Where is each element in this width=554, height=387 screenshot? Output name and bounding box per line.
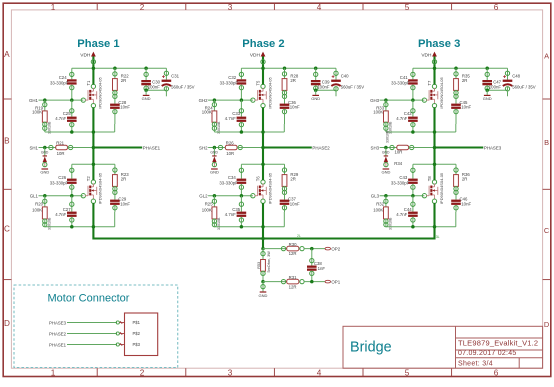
resistor R20 100K (32, 196, 51, 230)
svg-text:GND: GND (382, 150, 390, 154)
svg-text:T2: T2 (86, 176, 91, 182)
diode ESD protection Phase 2 (210, 148, 218, 167)
resistor R23 2R (113, 164, 130, 199)
svg-text:GND: GND (210, 150, 218, 154)
wire net GL3 (371, 194, 427, 199)
transistor T1 IPD90N04S04-05 (85, 76, 103, 108)
svg-text:PHASE1: PHASE1 (143, 145, 161, 150)
wire VDH rail Phase 1 (72, 66, 167, 70)
capacitor C31 560uF/35V electrolytic (162, 68, 195, 96)
wire net PHASE1 to connector (49, 342, 117, 347)
capacitor C44 4.7nF (396, 196, 417, 227)
svg-text:IPD90N04S04-05: IPD90N04S04-05 (439, 76, 444, 108)
wire low node line (386, 212, 456, 229)
resistor R19 100K (32, 100, 51, 134)
svg-text:33-330pF: 33-330pF (391, 81, 410, 86)
svg-text:GL3: GL3 (371, 194, 380, 199)
svg-text:560uF / 35V: 560uF / 35V (512, 84, 536, 89)
resistor R33 100K (373, 100, 392, 134)
svg-text:IPD90N04S04-05: IPD90N04S04-05 (267, 76, 272, 108)
svg-text:Motor Connector: Motor Connector (48, 293, 130, 305)
svg-text:33010B: 33010B (48, 217, 52, 230)
svg-text:PHASE3: PHASE3 (484, 145, 502, 150)
svg-text:C26: C26 (58, 175, 66, 180)
svg-text:560uF / 35V: 560uF / 35V (171, 84, 195, 89)
svg-text:B: B (4, 137, 10, 146)
wire VDH stub (91, 56, 95, 68)
svg-text:2R: 2R (290, 177, 296, 182)
svg-text:2R: 2R (462, 78, 468, 83)
wire net GL1 (30, 194, 86, 199)
wire VDH rail Phase 2 (241, 66, 336, 70)
ground symbol at SH1 diode (40, 168, 49, 174)
svg-text:R30: R30 (289, 242, 297, 247)
svg-text:12R: 12R (289, 284, 297, 289)
svg-text:SH3: SH3 (371, 145, 380, 150)
capacitor C25 4.7nF (55, 100, 76, 132)
svg-text:TLE9879_Evalkit_V1.2: TLE9879_Evalkit_V1.2 (458, 338, 538, 347)
wire cap ground link (485, 89, 507, 95)
svg-text:GND: GND (41, 150, 49, 154)
capacitor C27 4.7nF (55, 196, 76, 227)
connector X1 body (125, 313, 158, 356)
svg-text:T6: T6 (255, 176, 260, 182)
svg-text:10nF: 10nF (120, 202, 130, 207)
svg-text:4: 4 (317, 369, 322, 378)
wire shunt bottom branch (261, 279, 287, 291)
wire drain low side (92, 148, 94, 181)
svg-text:VDH: VDH (80, 52, 91, 58)
svg-text:3: 3 (228, 3, 233, 12)
svg-text:R34: R34 (394, 161, 402, 166)
svg-text:6: 6 (494, 3, 499, 12)
wire net GH1 (29, 98, 85, 103)
svg-text:4.7nF: 4.7nF (55, 116, 66, 121)
svg-text:33-330pF: 33-330pF (50, 181, 69, 186)
connector pin P$3 (116, 342, 140, 347)
svg-text:A: A (4, 50, 10, 59)
wire VDH stub (261, 56, 265, 68)
svg-text:VDH: VDH (421, 52, 432, 58)
svg-text:07.09.2017 02:45: 07.09.2017 02:45 (458, 350, 517, 357)
frame column ticks bottom (96, 368, 98, 376)
wire cap ground link (144, 89, 166, 95)
svg-text:5mOhm, 3W: 5mOhm, 3W (267, 251, 271, 273)
wire VDH stub (432, 56, 436, 68)
ground symbol at SH3 diode (381, 168, 390, 174)
svg-text:2: 2 (140, 3, 145, 12)
svg-text:100K: 100K (32, 207, 42, 212)
wire mid node high cell (45, 124, 115, 134)
resistor R34 10R (386, 130, 435, 166)
svg-text:C: C (4, 225, 10, 234)
capacitor C35 4.7nF (225, 196, 246, 227)
svg-text:GND: GND (40, 169, 49, 174)
svg-text:10nF: 10nF (120, 104, 130, 109)
svg-text:GL1: GL1 (30, 194, 39, 199)
wire low node line (45, 212, 115, 229)
svg-text:2L: 2L (297, 234, 301, 238)
svg-text:T5: T5 (255, 80, 260, 86)
node OP1 (325, 280, 341, 285)
svg-text:OP2: OP2 (331, 247, 340, 252)
svg-text:C42: C42 (404, 111, 412, 116)
svg-text:PHASE2: PHASE2 (49, 331, 67, 336)
connector pin P$2 (116, 331, 140, 336)
svg-text:10R: 10R (57, 151, 65, 156)
svg-text:C41: C41 (400, 75, 408, 80)
VDH supply symbol Phase 1 (80, 52, 96, 59)
resistor R30 12R (287, 242, 304, 256)
resistor R53 5mOhm 3W shunt (257, 249, 271, 282)
capacitor C26 33-330pF (50, 164, 77, 195)
svg-text:IPD90N04S04-05: IPD90N04S04-05 (98, 172, 103, 204)
svg-text:Phase 1: Phase 1 (77, 38, 119, 50)
svg-text:PHASE1: PHASE1 (49, 342, 67, 347)
ground symbol at SH2 diode (210, 168, 219, 174)
title block box (343, 326, 543, 368)
capacitor C24 33-330pF (50, 68, 77, 100)
wire net SH2 (199, 145, 225, 150)
svg-text:C33: C33 (232, 111, 240, 116)
capacitor C28 10nF (110, 100, 130, 124)
wire net GH3 (370, 98, 426, 103)
svg-text:T1: T1 (86, 80, 91, 86)
svg-text:33-330pF: 33-330pF (50, 81, 69, 86)
capacitor C42 4.7nF (396, 100, 417, 132)
motor connector dashed outline (14, 285, 178, 368)
wire low cell rail (241, 163, 284, 167)
svg-text:B: B (544, 138, 549, 147)
svg-text:GH1: GH1 (29, 98, 39, 103)
capacitor C33 4.7nF (225, 100, 246, 132)
svg-text:R32: R32 (376, 202, 384, 207)
resistor R32 100K (373, 196, 392, 230)
svg-text:GND: GND (381, 169, 390, 174)
capacitor C36 10nF (280, 100, 300, 124)
capacitor C34 33-330pF (219, 164, 246, 195)
svg-text:A: A (544, 52, 549, 61)
wire net PHASE2 to connector (49, 331, 117, 336)
svg-text:GND: GND (142, 96, 151, 101)
wire drain high side (262, 68, 264, 84)
frame column ticks top (96, 3, 98, 10)
transistor T5 IPD90N04S04-05 (255, 76, 273, 108)
svg-text:GL2: GL2 (199, 194, 208, 199)
svg-text:R21: R21 (56, 140, 64, 145)
svg-text:C34: C34 (228, 175, 236, 180)
svg-text:C43: C43 (399, 175, 407, 180)
svg-text:4.7nF: 4.7nF (225, 116, 236, 121)
resistor R35 2R (454, 68, 471, 103)
wire to OP2 (304, 247, 325, 251)
wire mid node high cell (386, 124, 456, 134)
svg-text:6: 6 (494, 369, 499, 378)
frame row ticks right (543, 98, 551, 100)
ground symbol Phase 1 high side (142, 95, 151, 101)
svg-text:C25: C25 (63, 111, 71, 116)
capacitor C32 33-330pF (220, 68, 247, 100)
svg-text:100nF: 100nF (148, 84, 161, 89)
svg-text:10nF: 10nF (461, 104, 471, 109)
wire cap ground link (314, 89, 336, 95)
capacitor C30 100nF (141, 68, 160, 90)
wire net PHASE3 to connector (49, 320, 117, 325)
svg-text:C: C (544, 226, 550, 235)
svg-text:GND: GND (259, 293, 268, 298)
svg-text:1: 1 (51, 3, 56, 12)
capacitor C29 10nF (110, 197, 130, 212)
svg-text:10R: 10R (395, 150, 403, 155)
wire net GL2 (199, 194, 255, 199)
svg-text:2R: 2R (290, 78, 296, 83)
resistor R36 2R (454, 164, 471, 199)
VDH supply symbol Phase 3 (421, 52, 437, 59)
transistor T8 IPD90N04S04-05 (426, 172, 444, 204)
svg-text:Sheet: 3/4: Sheet: 3/4 (458, 360, 493, 367)
wire mid node high cell (214, 124, 284, 134)
svg-text:100nF: 100nF (489, 84, 502, 89)
svg-text:GH2: GH2 (199, 98, 209, 103)
svg-text:4.7nF: 4.7nF (225, 212, 236, 217)
wire net GH2 (199, 98, 255, 103)
capacitor C45 10nF (451, 100, 471, 124)
wire to OP1 (304, 280, 325, 284)
svg-text:10nF: 10nF (290, 202, 300, 207)
svg-text:GND: GND (483, 96, 492, 101)
node OP2 (325, 247, 341, 252)
svg-text:R26: R26 (226, 140, 234, 145)
diode ESD protection Phase 1 (41, 148, 49, 167)
svg-text:5: 5 (405, 3, 410, 12)
svg-text:C31: C31 (171, 74, 179, 79)
svg-text:PHASE2: PHASE2 (312, 145, 330, 150)
Phase 2 block (199, 38, 365, 240)
svg-text:P$2: P$2 (133, 331, 141, 336)
wire source low side to shunt rail (433, 203, 435, 240)
wire low node line (214, 212, 284, 229)
svg-text:33-330pF: 33-330pF (219, 181, 238, 186)
svg-text:PHASE3: PHASE3 (49, 320, 67, 325)
svg-text:R20: R20 (35, 202, 43, 207)
svg-text:D: D (4, 319, 10, 328)
svg-text:VDH: VDH (250, 52, 261, 58)
wire drain low side (262, 148, 264, 181)
svg-text:33-330pF: 33-330pF (391, 181, 410, 186)
ground symbol shunt (259, 291, 268, 298)
resistor R28 2R (282, 68, 299, 103)
wire low cell rail (413, 163, 456, 167)
svg-text:Bridge: Bridge (350, 339, 392, 355)
svg-text:D: D (544, 320, 549, 329)
Phase 3 block (370, 38, 536, 240)
svg-text:33-330pF: 33-330pF (220, 81, 239, 86)
svg-text:33010B: 33010B (217, 217, 221, 230)
transistor T7 IPD90N04S04-05 (426, 76, 444, 108)
svg-text:Phase 3: Phase 3 (418, 38, 460, 50)
wire common source rail (93, 234, 439, 240)
svg-text:2: 2 (140, 369, 145, 378)
resistor R29 2R (282, 164, 299, 199)
Phase 1 block (29, 38, 195, 240)
ground symbol Phase 2 high side (311, 95, 320, 101)
capacitor C39 100nF (311, 68, 330, 90)
resistor R24 100K (202, 100, 221, 134)
svg-text:Phase 2: Phase 2 (242, 38, 284, 50)
svg-text:100K: 100K (32, 110, 42, 115)
svg-text:GND: GND (210, 169, 219, 174)
frame row ticks left (3, 98, 11, 100)
capacitor C47 100nF (482, 68, 501, 90)
svg-text:2R: 2R (121, 177, 127, 182)
svg-text:SH1: SH1 (29, 145, 38, 150)
svg-text:100K: 100K (202, 207, 212, 212)
resistor R22 2R (113, 68, 130, 103)
svg-text:C48: C48 (512, 74, 520, 79)
wire shunt top branch (261, 239, 286, 251)
wire phase output PHASE2 (261, 145, 330, 150)
wire low cell rail (72, 163, 115, 167)
svg-text:IPD90N04S04-05: IPD90N04S04-05 (267, 172, 272, 204)
resistor R26 10R (225, 140, 263, 155)
svg-text:C24: C24 (59, 75, 67, 80)
svg-text:33010B: 33010B (386, 130, 390, 143)
svg-text:GND: GND (311, 96, 320, 101)
svg-text:4: 4 (317, 3, 322, 12)
svg-text:P$1: P$1 (133, 320, 141, 325)
wire phase output PHASE1 (92, 145, 161, 150)
capacitor C41 33-330pF (391, 68, 418, 100)
svg-text:R53: R53 (257, 262, 261, 269)
svg-text:R31: R31 (289, 275, 297, 280)
wire net SH1 (29, 145, 55, 150)
svg-text:10R: 10R (226, 151, 234, 156)
svg-text:4.7nF: 4.7nF (396, 116, 407, 121)
svg-text:T7: T7 (427, 80, 432, 86)
svg-text:10nF: 10nF (461, 202, 471, 207)
svg-text:5: 5 (405, 369, 410, 378)
svg-text:100K: 100K (373, 207, 383, 212)
svg-text:4.7nF: 4.7nF (396, 212, 407, 217)
wire source high side to phase node (92, 107, 94, 147)
wire source high side to phase node (433, 107, 435, 147)
resistor R21 10R (56, 140, 94, 155)
svg-text:4.7nF: 4.7nF (55, 212, 66, 217)
wire phase output PHASE3 (433, 145, 502, 150)
svg-text:C40: C40 (341, 74, 349, 79)
svg-text:100nF: 100nF (317, 84, 330, 89)
svg-text:12R: 12R (289, 251, 297, 256)
capacitor C38 1nF (307, 249, 325, 282)
svg-text:10nF: 10nF (290, 104, 300, 109)
svg-text:3L: 3L (436, 235, 440, 239)
transistor T2 IPD90N04S04-05 (85, 172, 103, 204)
svg-text:OP1: OP1 (331, 280, 340, 285)
resistor R25 100K (202, 196, 221, 230)
connector pin P$1 (116, 320, 140, 325)
svg-text:2R: 2R (462, 177, 468, 182)
VDH supply symbol Phase 2 (250, 52, 266, 59)
wire drain high side (433, 68, 435, 84)
svg-text:IPD90N04S04-05: IPD90N04S04-05 (439, 172, 444, 204)
svg-text:P$3: P$3 (133, 342, 141, 347)
svg-text:C32: C32 (228, 75, 236, 80)
svg-text:33010B: 33010B (389, 217, 393, 230)
svg-text:2R: 2R (121, 78, 127, 83)
svg-text:100K: 100K (202, 110, 212, 115)
svg-text:R25: R25 (205, 202, 213, 207)
svg-text:SH2: SH2 (199, 145, 208, 150)
capacitor C37 10nF (280, 197, 300, 212)
resistor R31 12R (287, 275, 304, 290)
ground symbol Phase 3 high side (483, 95, 492, 101)
svg-text:GH3: GH3 (370, 98, 380, 103)
svg-text:3: 3 (228, 369, 233, 378)
wire source high side to phase node (262, 107, 264, 147)
transistor T6 IPD90N04S04-05 (255, 172, 273, 204)
wire drain high side (92, 68, 94, 84)
svg-text:1nF: 1nF (318, 266, 326, 271)
svg-text:IPD90N04S04-05: IPD90N04S04-05 (98, 76, 103, 108)
capacitor C40 560uF/35V electrolytic (331, 68, 364, 96)
capacitor C46 10nF (451, 197, 471, 212)
capacitor C43 33-330pF (391, 164, 418, 195)
wire source low side to shunt rail (262, 203, 264, 240)
svg-text:1: 1 (51, 369, 56, 378)
wire VDH rail Phase 3 (413, 66, 508, 70)
diode ESD protection Phase 3 (382, 148, 390, 167)
wire drain low side (433, 148, 435, 181)
svg-text:560uF / 35V: 560uF / 35V (341, 84, 365, 89)
wire net SH3 (371, 145, 397, 150)
wire source low side to shunt rail (92, 203, 94, 240)
svg-text:T8: T8 (427, 176, 432, 182)
capacitor C48 560uF/35V electrolytic (503, 68, 536, 96)
svg-text:100K: 100K (373, 110, 383, 115)
